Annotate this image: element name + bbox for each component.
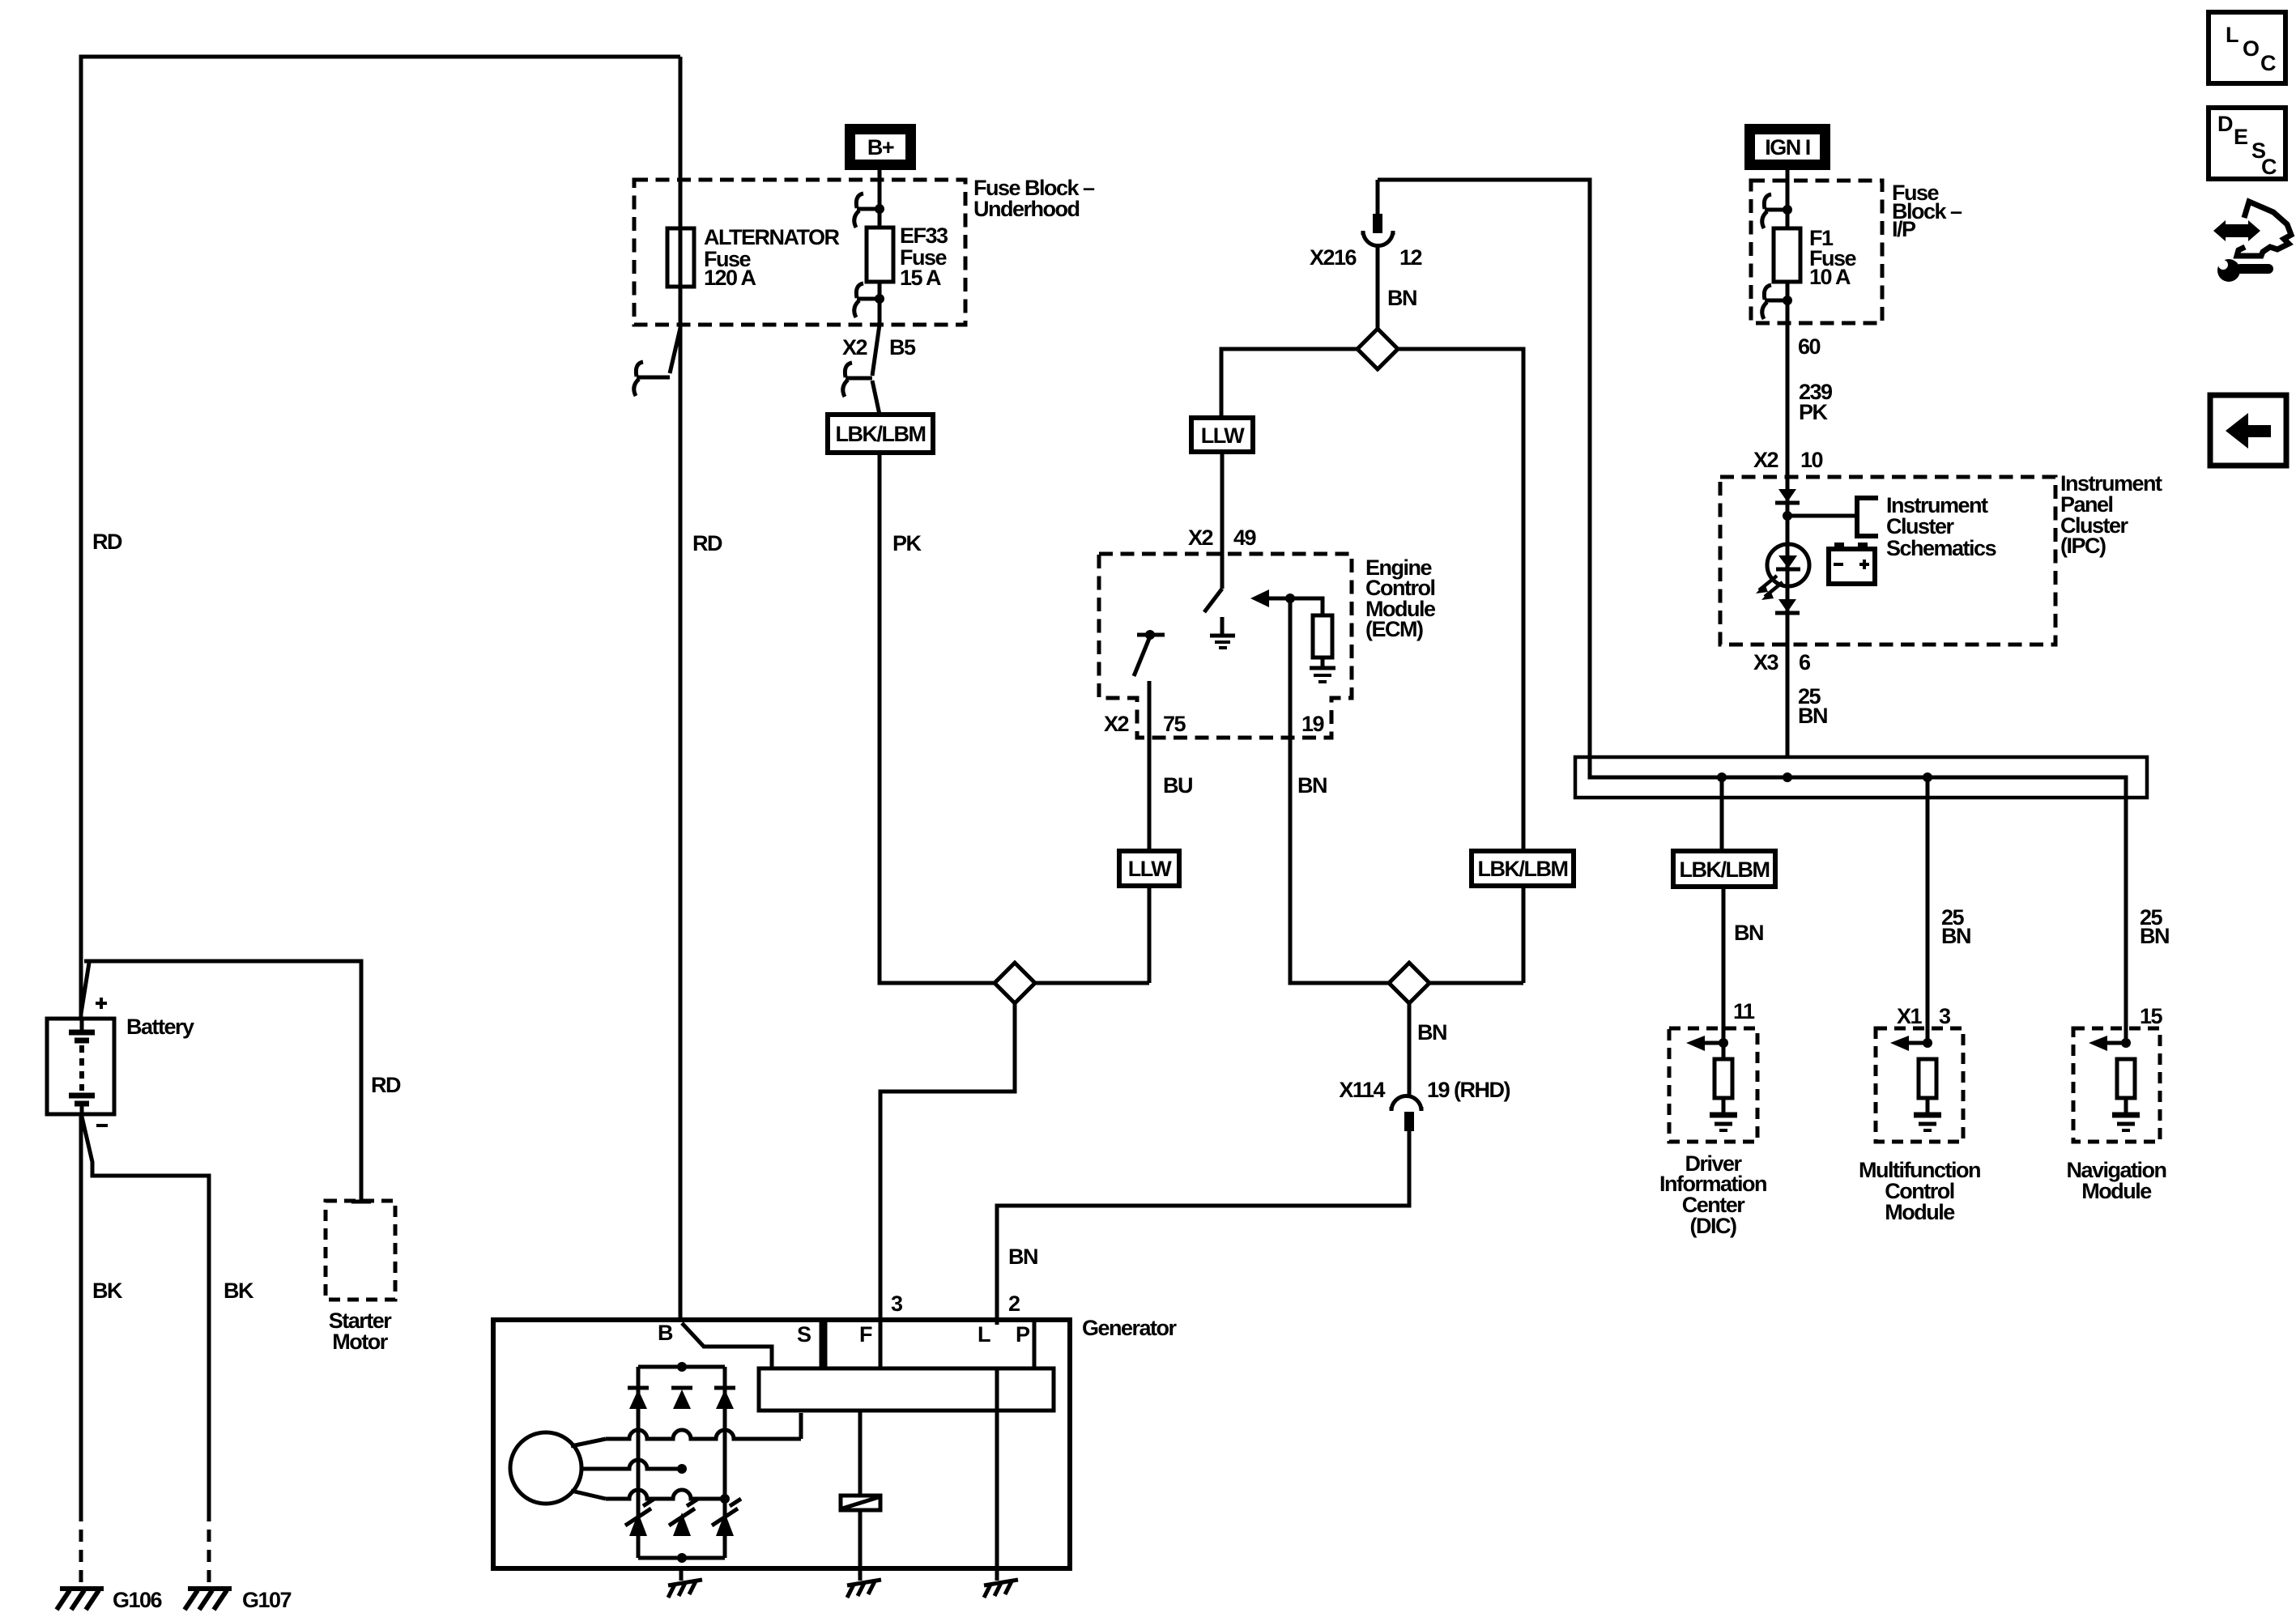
svg-text:EF33: EF33	[900, 223, 948, 248]
wire label box LBK/LBM right	[1472, 851, 1574, 886]
svg-text:X2: X2	[1104, 712, 1129, 736]
generator B terminal jumper	[682, 1323, 772, 1368]
svg-text:Generator: Generator	[1082, 1316, 1178, 1340]
svg-text:X2: X2	[1188, 526, 1213, 550]
zener diode bottom left	[625, 1499, 654, 1536]
diamond splice upper	[1357, 329, 1398, 369]
wire label box LLW lower	[1119, 851, 1179, 886]
ECM dashed box with connector notch	[1099, 554, 1352, 738]
diode rectifier top middle	[671, 1388, 692, 1409]
svg-text:BN: BN	[1387, 286, 1416, 310]
svg-text:F: F	[859, 1322, 872, 1347]
svg-text:Motor: Motor	[332, 1330, 388, 1354]
rectifier left branch	[637, 1367, 641, 1558]
ECM internal resistor feed	[1290, 598, 1323, 615]
wire generator L internal to ground	[995, 1368, 999, 1581]
wire label box LBK/LBM upper	[828, 415, 933, 453]
generator box	[493, 1320, 1070, 1568]
junction dot ECM pin75 contact	[1145, 630, 1155, 640]
zener diode bottom middle	[669, 1499, 698, 1536]
svg-text:C: C	[2261, 155, 2277, 179]
svg-text:3: 3	[1939, 1004, 1951, 1028]
resistor DIC	[1715, 1059, 1732, 1098]
svg-text:O: O	[2243, 36, 2259, 61]
svg-text:S: S	[797, 1322, 811, 1347]
wire PK from LBK/LBM to diamond splice	[880, 453, 1149, 983]
diamond splice S116 left	[995, 963, 1035, 1003]
svg-text:BN: BN	[1798, 704, 1827, 728]
svg-text:15: 15	[2140, 1004, 2163, 1028]
ECM switch pin 49 blade	[1204, 589, 1222, 612]
wire IPC internal vertical	[1786, 477, 1790, 757]
svg-text:RD: RD	[692, 531, 722, 555]
svg-text:BU: BU	[1163, 773, 1192, 798]
LED indicator lamp IPC	[1767, 544, 1809, 586]
ground generator F	[847, 1580, 881, 1598]
ECM switch pin 75 contact and blade	[1134, 635, 1165, 676]
wire IGN I through F1 fuse	[1786, 170, 1790, 477]
wire BK battery negative to G107	[82, 1117, 209, 1585]
svg-text:LBK/LBM: LBK/LBM	[836, 422, 926, 446]
svg-text:LLW: LLW	[1201, 423, 1245, 448]
junction dot rectifier bottom	[677, 1553, 687, 1563]
wire BN from X216 to diamond splice	[1376, 246, 1380, 349]
wire label box LLW upper	[1191, 418, 1253, 452]
svg-text:C: C	[2260, 51, 2276, 75]
svg-text:(IPC): (IPC)	[2060, 534, 2106, 558]
wire IPC tap to cluster schematics pointer	[1787, 514, 1857, 518]
junction dot IPC tap	[1783, 511, 1792, 521]
wire label box LBK/LBM DIC	[1673, 851, 1775, 887]
svg-text:BK: BK	[224, 1279, 254, 1303]
svg-text:Module: Module	[2081, 1179, 2152, 1203]
icon back arrow box	[2210, 395, 2286, 466]
svg-text:2: 2	[1008, 1291, 1020, 1316]
svg-text:G107: G107	[242, 1588, 292, 1612]
pointer bracket instrument cluster schematics	[1857, 498, 1878, 536]
wire BN ECM pin19 to diamond splice right	[1290, 598, 1523, 983]
wire BN bus to MCM pin 3	[1926, 777, 1930, 1043]
icon double arrow with outline and wrench	[2213, 202, 2291, 282]
stator phase 3 winding	[571, 1490, 725, 1499]
rectifier top bus	[638, 1365, 725, 1369]
field coil generator	[841, 1496, 880, 1510]
svg-text:15 A: 15 A	[900, 266, 941, 290]
ECM resistor ground bars	[1310, 668, 1335, 682]
connector X114 socket and stub	[1391, 1096, 1421, 1132]
junction dot MCM	[1923, 1038, 1932, 1048]
svg-text:19: 19	[1301, 712, 1325, 736]
ECM resistor ground stub	[1321, 657, 1325, 667]
NM input arrow	[2089, 1036, 2126, 1051]
svg-text:RD: RD	[92, 530, 122, 554]
terminal clip below alternator fuse	[634, 328, 680, 396]
MCM input arrow	[1890, 1036, 1928, 1051]
junction dot above F1	[1783, 205, 1792, 215]
fuse F1 10A	[1774, 228, 1800, 282]
svg-text:BN: BN	[1297, 773, 1327, 798]
wire BN X114 to generator L terminal	[997, 1131, 1409, 1325]
svg-text:75: 75	[1163, 712, 1186, 736]
svg-text:19 (RHD): 19 (RHD)	[1427, 1078, 1510, 1102]
ground G106	[57, 1589, 104, 1610]
junction dot below EF33	[875, 294, 884, 304]
svg-text:E: E	[2234, 125, 2247, 149]
diode IPC output	[1775, 599, 1800, 613]
svg-text:RD: RD	[371, 1073, 401, 1097]
label battery minus	[96, 1124, 108, 1127]
svg-text:IGN I: IGN I	[1765, 135, 1810, 160]
wire RD alternator feed vertical	[679, 57, 683, 1321]
DIC input arrow	[1686, 1036, 1723, 1051]
rectifier bottom bus	[638, 1556, 725, 1560]
wire LLW upper down to ECM pin 49	[1220, 452, 1225, 589]
wire top rail to X216 and right drop	[1378, 180, 1590, 777]
battery Battery	[47, 1019, 114, 1114]
multifunction control module dashed box	[1876, 1028, 1963, 1142]
junction dot phase3 to right branch	[720, 1494, 730, 1504]
svg-text:B: B	[658, 1321, 673, 1345]
wire diamond down to generator F terminal	[880, 1003, 1015, 1368]
junction dot below F1	[1783, 296, 1792, 305]
svg-text:6: 6	[1799, 650, 1811, 674]
svg-text:X3: X3	[1753, 650, 1779, 674]
diamond splice right	[1389, 963, 1429, 1003]
svg-text:Battery: Battery	[126, 1015, 194, 1039]
resistor ECM internal	[1313, 615, 1332, 657]
svg-text:X1: X1	[1897, 1004, 1923, 1028]
wire LBK/LBM right box drop	[1522, 886, 1526, 983]
fuse EF33 15A	[867, 228, 893, 282]
wire B+ to EF33 fuse	[872, 170, 880, 415]
svg-text:PK: PK	[1799, 400, 1829, 424]
ground G107	[185, 1589, 232, 1610]
navigation module dashed box	[2073, 1028, 2160, 1142]
zener diode bottom right	[712, 1499, 741, 1536]
rotor generator	[510, 1432, 581, 1504]
junction dot bus MCM tap	[1923, 772, 1932, 782]
svg-text:49: 49	[1233, 526, 1257, 550]
fuse block underhood dashed box	[634, 180, 965, 325]
svg-text:LBK/LBM: LBK/LBM	[1478, 857, 1568, 881]
svg-text:X114: X114	[1339, 1078, 1385, 1102]
svg-text:60: 60	[1798, 334, 1821, 359]
generator regulator bar	[759, 1368, 1054, 1411]
ground generator B	[668, 1580, 702, 1598]
svg-text:(DIC): (DIC)	[1690, 1214, 1736, 1238]
svg-text:I/P: I/P	[1892, 217, 1916, 241]
wire generator F to ground	[858, 1510, 863, 1581]
driver information center dashed box	[1669, 1028, 1757, 1142]
battery symbol icon IPC	[1829, 543, 1875, 584]
svg-text:11: 11	[1733, 999, 1755, 1023]
junction dot phase2 to B branch	[677, 1464, 687, 1474]
svg-text:12: 12	[1399, 245, 1422, 270]
fuse ALTERNATOR 120A	[667, 228, 694, 287]
fuse block I/P dashed box	[1751, 181, 1882, 323]
diode rectifier top left	[628, 1388, 649, 1409]
generator terminal cell walls	[821, 1320, 1034, 1368]
label battery icon polarity	[1834, 560, 1869, 569]
terminal clip below F1 fuse	[1762, 285, 1787, 319]
junction dot ECM pin19	[1285, 594, 1295, 603]
ground generator L	[984, 1580, 1018, 1598]
wire BK battery negative to G106	[79, 1114, 83, 1585]
IGN I power label box	[1744, 124, 1830, 170]
junction dot above EF33	[875, 204, 884, 214]
DIC ground	[1710, 1043, 1737, 1130]
svg-text:(ECM): (ECM)	[1365, 617, 1423, 641]
ECM output arrow pin 19	[1250, 589, 1290, 607]
svg-text:X2: X2	[842, 335, 867, 360]
svg-text:B+: B+	[867, 135, 894, 160]
wire LLW lower box to diamond	[1148, 886, 1152, 983]
wire BU from ECM pin 75 to LLW box	[1148, 681, 1152, 851]
junction dot bus DIC tap	[1717, 772, 1727, 782]
rectifier right branch	[723, 1367, 727, 1558]
svg-text:BN: BN	[1008, 1245, 1037, 1269]
svg-text:3: 3	[891, 1291, 903, 1316]
svg-text:P: P	[1016, 1322, 1030, 1347]
svg-text:L: L	[2226, 23, 2238, 47]
connector X216 stub and socket	[1363, 180, 1393, 246]
wire top rail left RD	[81, 57, 680, 1019]
wire generator F internal	[858, 1411, 863, 1496]
ECM internal ground stub	[1220, 617, 1225, 635]
svg-text:X216: X216	[1310, 245, 1357, 270]
junction dot bus IPC feed	[1783, 772, 1792, 782]
svg-text:L: L	[978, 1322, 990, 1347]
terminal clip below EF33 fuse	[854, 283, 880, 317]
diode rectifier top right	[714, 1388, 735, 1409]
wire BN diamond down to X114	[1408, 1003, 1412, 1097]
svg-text:Cluster: Cluster	[1886, 514, 1955, 538]
junction dot rectifier top	[677, 1362, 687, 1372]
junction dot NM	[2121, 1038, 2131, 1048]
wire BN LBK/LBM to DIC pin 11	[1722, 887, 1726, 1043]
icon LOC box	[2209, 12, 2285, 83]
MCM ground	[1914, 1098, 1941, 1130]
svg-text:X2: X2	[1753, 448, 1778, 472]
terminal clip above F1 fuse	[1762, 194, 1787, 228]
svg-text:BK: BK	[92, 1279, 123, 1303]
svg-text:Schematics: Schematics	[1886, 536, 1996, 560]
svg-text:D: D	[2217, 112, 2233, 136]
bus internal wire	[1590, 757, 2126, 798]
stator phase 2 winding	[581, 1460, 682, 1469]
stator phase 1 winding	[571, 1413, 801, 1446]
NM ground	[2112, 1098, 2140, 1130]
svg-text:10: 10	[1800, 448, 1823, 472]
svg-text:LLW: LLW	[1128, 857, 1172, 881]
wire diamond to LLW upper corner	[1221, 349, 1523, 851]
svg-text:Module: Module	[1885, 1200, 1955, 1224]
svg-text:Underhood: Underhood	[973, 197, 1079, 221]
instrument panel cluster IPC dashed box	[1720, 477, 2055, 645]
svg-text:LBK/LBM: LBK/LBM	[1680, 857, 1770, 882]
LED emission arrows	[1756, 576, 1783, 600]
svg-text:G106: G106	[113, 1588, 163, 1612]
svg-text:120 A: 120 A	[704, 266, 756, 290]
svg-text:BN: BN	[1417, 1020, 1446, 1045]
svg-text:B5: B5	[889, 335, 916, 360]
resistor NM	[2117, 1059, 2135, 1098]
icon DESC box	[2209, 108, 2285, 179]
junction dot DIC	[1719, 1038, 1728, 1048]
terminal clip above EF33 fuse	[854, 194, 880, 228]
wire BN bus to DIC	[1720, 777, 1724, 851]
wire generator B to ground	[679, 1568, 684, 1581]
svg-text:PK: PK	[892, 531, 922, 555]
starter motor dashed box	[326, 1201, 395, 1300]
wire BN bus to NM pin 15	[2124, 798, 2128, 1043]
connector X2 B5 jog and clip	[843, 363, 872, 397]
bus bar splice pack	[1575, 757, 2147, 798]
svg-text:BN: BN	[1941, 924, 1970, 948]
svg-text:10 A: 10 A	[1809, 265, 1851, 289]
resistor MCM	[1919, 1059, 1936, 1098]
diode IPC input	[1775, 489, 1800, 503]
B+ power label box	[845, 124, 916, 170]
wire RD battery to starter motor	[84, 961, 361, 1202]
svg-text:BN: BN	[2140, 924, 2169, 948]
svg-text:ALTERNATOR: ALTERNATOR	[704, 225, 839, 249]
label battery plus	[96, 998, 107, 1009]
svg-text:BN: BN	[1734, 921, 1763, 945]
ECM internal ground bars	[1210, 636, 1235, 648]
